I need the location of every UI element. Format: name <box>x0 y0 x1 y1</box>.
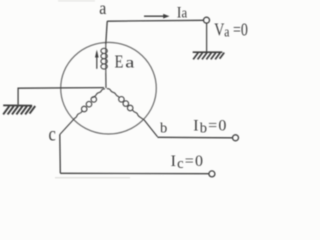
faint scan smudge top <box>58 0 95 2</box>
winding A coil (vertical) <box>101 44 107 73</box>
label a <box>99 0 106 18</box>
neutral wire to left ground <box>18 88 104 105</box>
label c <box>49 123 56 145</box>
wire coil to neutral junction <box>105 73 107 88</box>
left ground <box>3 105 35 114</box>
winding B coil (diagonal to lower right) <box>107 89 144 120</box>
Ib terminal <box>233 135 239 141</box>
svg-text:a: a <box>99 0 106 18</box>
wire b horizontal to terminal <box>158 136 233 139</box>
svg-text:b: b <box>160 120 167 136</box>
svg-text:Va =0: Va =0 <box>214 21 248 40</box>
label Ea <box>115 53 124 72</box>
wire b winding to bend <box>144 120 158 137</box>
label b <box>160 120 167 136</box>
label Va =0 <box>214 21 248 40</box>
Ea arrow <box>95 50 99 69</box>
label Ic=0 <box>171 153 205 172</box>
faint scan smudge bottom <box>55 177 130 179</box>
Ia arrow <box>144 14 170 19</box>
Va terminal <box>204 17 210 23</box>
wire Va terminal to ground <box>206 23 208 52</box>
svg-text:c: c <box>49 123 56 145</box>
svg-text:Ia: Ia <box>177 5 187 22</box>
wire c vertical down <box>59 135 62 174</box>
right ground <box>193 52 225 59</box>
winding C coil (diagonal to lower left) <box>60 89 105 135</box>
label Ib=0 <box>193 117 227 136</box>
wire top vertical from node a corner down to winding <box>106 21 107 44</box>
svg-text:Ic=0: Ic=0 <box>171 153 205 172</box>
wire top horizontal to Va terminal <box>107 19 203 22</box>
stator circle <box>61 42 157 134</box>
Ic terminal <box>209 171 215 177</box>
svg-text:E: E <box>115 53 124 72</box>
label Ia <box>177 5 187 22</box>
svg-text:a: a <box>125 54 134 71</box>
svg-text:Ib=0: Ib=0 <box>193 117 227 136</box>
wire c horizontal to terminal <box>60 172 209 174</box>
